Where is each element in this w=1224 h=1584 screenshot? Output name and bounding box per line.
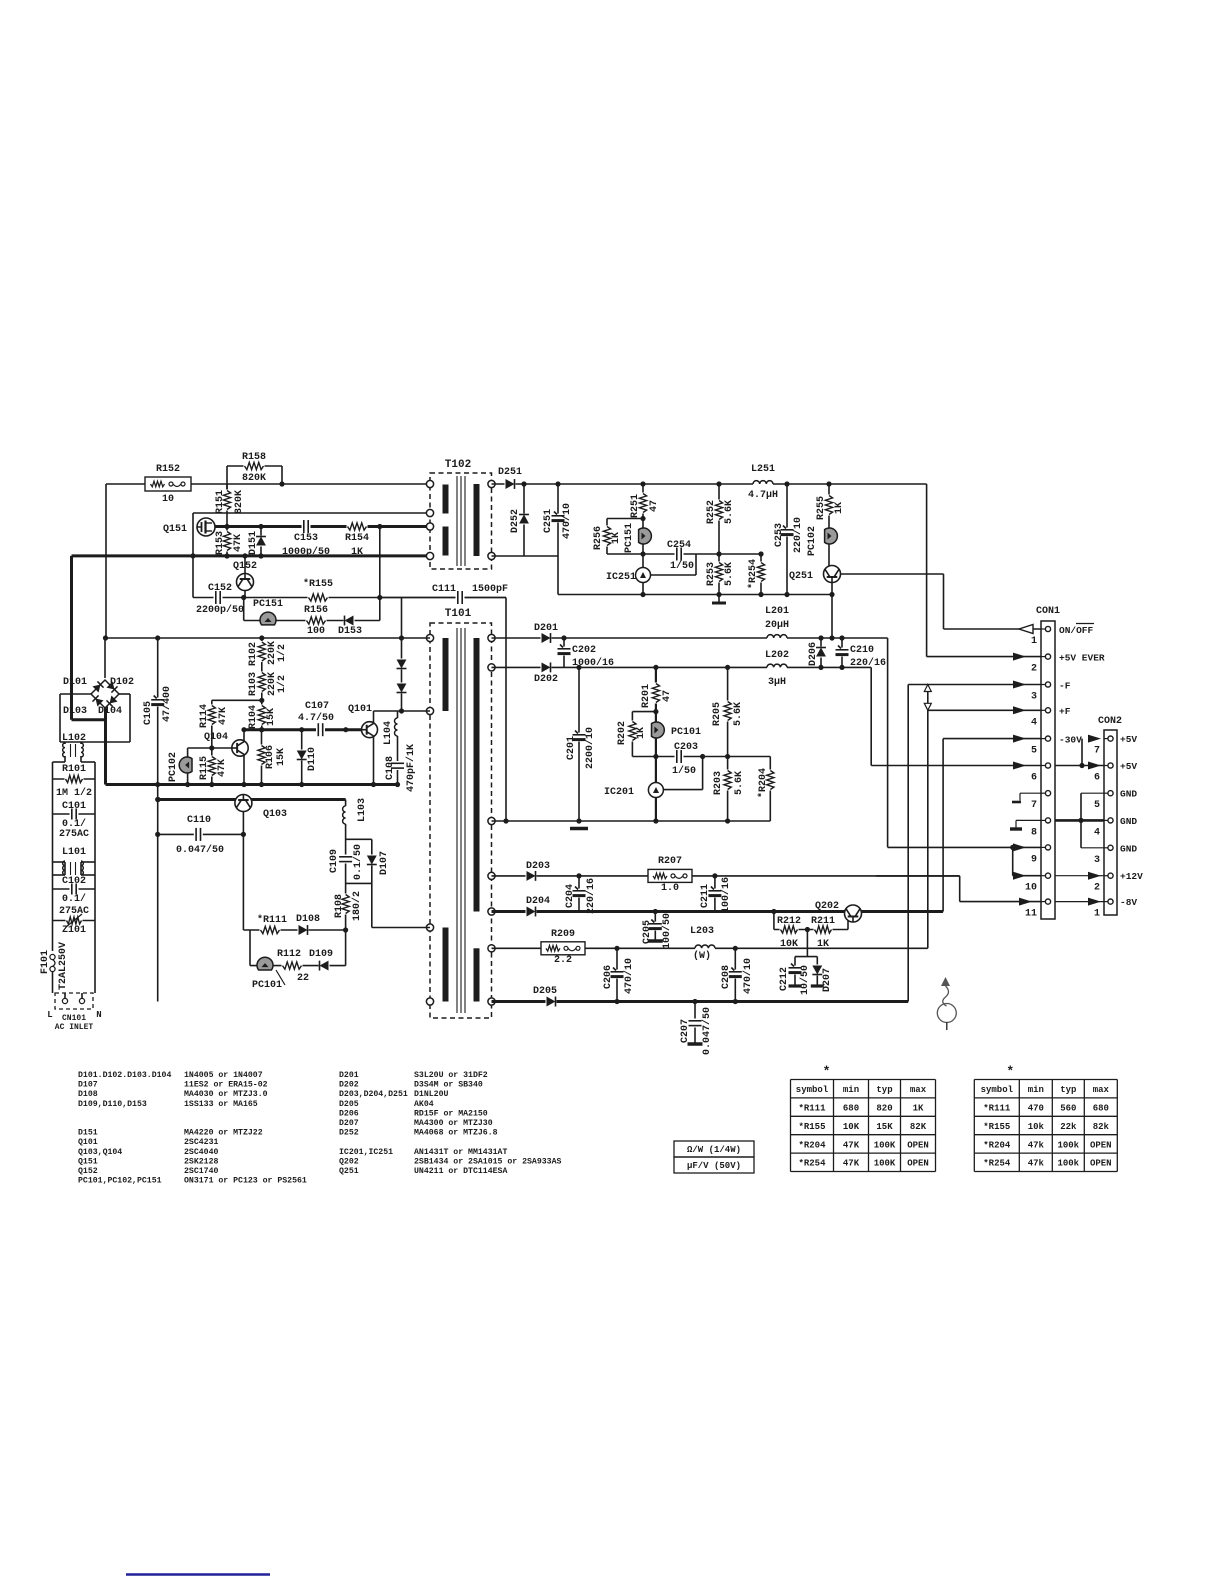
resistor R115: [211, 748, 213, 785]
svg-text:3: 3: [1094, 855, 1100, 866]
svg-text:470/10: 470/10: [561, 503, 573, 539]
svg-text:(W): (W): [693, 950, 711, 962]
svg-text:R115: R115: [199, 756, 210, 780]
svg-text:Q151: Q151: [163, 524, 187, 535]
svg-text:D251: D251: [498, 467, 522, 478]
svg-text:0.047/50: 0.047/50: [701, 1007, 713, 1055]
wire bridge bottom: [105, 708, 107, 720]
svg-text:C105: C105: [143, 701, 154, 725]
svg-text:82k: 82k: [1093, 1122, 1110, 1132]
svg-text:D202: D202: [534, 674, 558, 685]
svg-text:15K: 15K: [876, 1122, 893, 1132]
svg-text:*R254: *R254: [983, 1159, 1011, 1169]
svg-text:C212: C212: [779, 967, 790, 991]
svg-text:R104: R104: [248, 705, 259, 729]
svg-text:1M 1/2: 1M 1/2: [56, 787, 92, 799]
capacitor C105: [157, 638, 159, 1002]
svg-text:47: 47: [649, 500, 660, 512]
svg-text:*R111: *R111: [983, 1104, 1011, 1114]
svg-text:C110: C110: [187, 815, 211, 826]
inductor L201: [767, 637, 787, 640]
svg-text:C211: C211: [700, 884, 711, 908]
wire row y556 right: [492, 555, 559, 557]
connector CON1: [1041, 621, 1055, 919]
svg-text:C208: C208: [721, 965, 732, 989]
wire left drop x106: [105, 484, 107, 638]
wire bridge top: [104, 638, 106, 678]
resistor R104: [256, 705, 267, 726]
legend boxes: [674, 1141, 754, 1157]
svg-text:max: max: [910, 1085, 927, 1095]
optocoupler PC101 row: [249, 930, 251, 966]
capacitor C212 diode D207: [806, 930, 808, 957]
capacitor C211: [714, 876, 716, 912]
svg-text:11: 11: [1025, 909, 1037, 920]
svg-text:R103: R103: [248, 672, 259, 696]
wire left box x158: [155, 797, 160, 802]
pin8 nc stub: [1016, 819, 1041, 821]
wire thick row y911.5: [492, 910, 944, 913]
capacitor C102: [53, 888, 96, 890]
svg-text:1/50: 1/50: [670, 560, 694, 572]
capacitor C111 row: [380, 597, 506, 599]
svg-text:100k: 100k: [1057, 1140, 1079, 1150]
transistor Q103: [235, 795, 252, 812]
wire row y667.4: [492, 666, 872, 668]
svg-text:20µH: 20µH: [765, 620, 789, 631]
svg-text:0.1/: 0.1/: [62, 893, 86, 905]
svg-text:symbol: symbol: [796, 1085, 829, 1095]
bridge side box: [60, 693, 91, 695]
arrow: [1013, 843, 1026, 851]
wire x506 barrier drop: [505, 598, 507, 822]
svg-text:47K: 47K: [843, 1159, 860, 1169]
svg-text:PC151: PC151: [253, 599, 283, 610]
svg-text:0.047/50: 0.047/50: [176, 844, 224, 856]
svg-text:220/16: 220/16: [850, 657, 886, 669]
transistor Q152: [237, 574, 254, 591]
svg-text:S3L20U or 31DF2: S3L20U or 31DF2: [414, 1071, 488, 1080]
shunt regulator IC201: [655, 757, 657, 784]
svg-text:D202: D202: [339, 1081, 359, 1090]
wire thick row y526.5: [215, 525, 430, 528]
svg-text:820K: 820K: [234, 490, 245, 514]
svg-text:R203: R203: [713, 771, 724, 795]
svg-text:D1NL20U: D1NL20U: [414, 1090, 448, 1099]
svg-text:D207: D207: [339, 1119, 359, 1128]
svg-text:R253: R253: [706, 562, 717, 586]
connector CN101 AC inlet: [55, 993, 93, 1009]
svg-text:PC151: PC151: [624, 523, 635, 553]
svg-text:Q152: Q152: [233, 561, 257, 572]
svg-text:C204: C204: [565, 884, 576, 908]
svg-text:L103: L103: [357, 798, 368, 822]
svg-text:100k: 100k: [1057, 1159, 1079, 1169]
svg-text:D108: D108: [296, 914, 320, 925]
arrow: [1013, 872, 1026, 880]
resistor R108: [340, 894, 351, 915]
svg-text:C109: C109: [329, 849, 340, 873]
svg-text:4.7/50: 4.7/50: [298, 712, 334, 724]
svg-text:2: 2: [1031, 664, 1037, 675]
svg-text:R207: R207: [658, 856, 682, 867]
wire +5VEVER drop: [926, 484, 928, 657]
resistor R252: [718, 484, 720, 554]
svg-text:L201: L201: [765, 606, 789, 617]
svg-text:*R254: *R254: [747, 559, 759, 589]
svg-text:GND: GND: [1120, 789, 1137, 800]
svg-text:GND: GND: [1120, 843, 1137, 854]
resistor R201: [655, 667, 657, 711]
svg-text:1N4005 or 1N4007: 1N4005 or 1N4007: [184, 1071, 263, 1080]
resistor R153: [226, 527, 228, 557]
svg-text:Z101: Z101: [62, 925, 86, 936]
svg-text:MA4300 or MTZJ30: MA4300 or MTZJ30: [414, 1119, 493, 1128]
diode D108: [298, 924, 309, 936]
svg-text:47/400: 47/400: [161, 686, 173, 722]
svg-text:R255: R255: [816, 496, 827, 520]
wire base row y748: [188, 747, 232, 749]
resistor R212: [780, 924, 799, 935]
svg-text:+5V: +5V: [1120, 761, 1137, 772]
svg-text:C201: C201: [566, 736, 577, 760]
svg-text:min: min: [843, 1085, 859, 1095]
svg-text:MA4068 or MTZJ6.8: MA4068 or MTZJ6.8: [414, 1129, 498, 1138]
wire thick bus y784.5: [106, 783, 400, 786]
svg-text:D203,D204,D251: D203,D204,D251: [339, 1090, 408, 1099]
svg-text:10: 10: [1025, 883, 1037, 894]
transistor Q251: [824, 566, 841, 583]
svg-text:PC101: PC101: [671, 727, 701, 738]
svg-text:C152: C152: [208, 583, 232, 594]
svg-text:R205: R205: [712, 702, 723, 726]
svg-text:180/2: 180/2: [351, 891, 363, 921]
svg-text:5: 5: [1094, 800, 1100, 811]
transistor Q104: [232, 740, 248, 756]
svg-text:*R204: *R204: [983, 1140, 1011, 1150]
wire row y948.3: [492, 947, 928, 949]
diode D252: [523, 484, 525, 556]
capacitor C205: [654, 912, 656, 941]
svg-text:C206: C206: [603, 965, 614, 989]
resistor R151: [226, 484, 228, 527]
transformer T102: [430, 473, 492, 569]
resistor R158: [227, 465, 282, 467]
svg-text:D252: D252: [339, 1129, 359, 1138]
svg-text:D103: D103: [63, 706, 87, 717]
svg-text:82K: 82K: [910, 1122, 927, 1132]
svg-text:D252: D252: [510, 509, 521, 533]
svg-text:C253: C253: [774, 523, 785, 547]
wire row y700.3: [212, 699, 262, 701]
capacitor C210: [841, 638, 843, 667]
capacitor C206: [616, 948, 618, 1001]
svg-text:C207: C207: [680, 1019, 691, 1043]
svg-text:Q103,Q104: Q103,Q104: [78, 1148, 122, 1157]
svg-text:100: 100: [307, 626, 325, 637]
svg-text:T101: T101: [445, 608, 472, 620]
svg-text:4: 4: [1031, 717, 1037, 728]
svg-text:MA4030 or MTZJ3.0: MA4030 or MTZJ3.0: [184, 1090, 268, 1099]
svg-text:15K: 15K: [276, 748, 287, 766]
resistor R211: [814, 924, 833, 935]
svg-text:R256: R256: [593, 526, 604, 550]
svg-text:2200p/50: 2200p/50: [196, 604, 244, 616]
wire Q251 to CON1 pin1: [841, 573, 944, 575]
svg-text:470/10: 470/10: [623, 958, 635, 994]
resistor R202: [632, 711, 656, 713]
wire x379.8 drop: [379, 527, 381, 621]
diode D202: [541, 661, 552, 673]
transistor Q202: [845, 905, 862, 922]
ground under C201: [570, 827, 588, 831]
svg-text:PC101,PC102,PC151: PC101,PC102,PC151: [78, 1177, 162, 1186]
transformer T101: [430, 623, 492, 1018]
capacitor C109 / diode D107 box: [346, 838, 372, 840]
svg-text:+12V: +12V: [1120, 871, 1143, 882]
svg-text:C202: C202: [572, 645, 596, 656]
svg-text:220/10: 220/10: [792, 517, 804, 553]
svg-text:R252: R252: [706, 500, 717, 524]
svg-text:R211: R211: [811, 916, 835, 927]
wire ground row y821: [492, 820, 771, 822]
svg-text:Q152: Q152: [78, 1167, 98, 1176]
wire row y711 to T101: [402, 710, 431, 712]
wire +5V route x871.2: [870, 667, 872, 765]
svg-text:*: *: [1006, 1064, 1014, 1079]
resistor R207: [648, 869, 692, 882]
svg-text:2SC4231: 2SC4231: [184, 1138, 218, 1147]
inductor L103: [345, 800, 347, 931]
svg-text:Q202: Q202: [815, 901, 839, 912]
arrow: [1013, 653, 1026, 661]
diode D110: [301, 730, 303, 785]
svg-text:2SB1434 or 2SA1015 or 2SA933AS: 2SB1434 or 2SA1015 or 2SA933AS: [414, 1157, 561, 1166]
optocoupler PC101 transistor side: [655, 712, 657, 757]
resistor R154: [347, 521, 368, 532]
svg-text:1: 1: [1094, 909, 1100, 920]
wire -8V route: [876, 875, 960, 877]
svg-text:47K: 47K: [217, 759, 228, 777]
svg-text:OPEN: OPEN: [1090, 1140, 1112, 1150]
svg-text:R202: R202: [617, 721, 628, 745]
svg-text:D109: D109: [309, 949, 333, 960]
svg-text:3: 3: [1031, 692, 1037, 703]
svg-text:680: 680: [843, 1104, 859, 1114]
inductor L203: [695, 947, 715, 950]
svg-text:470: 470: [1028, 1104, 1044, 1114]
svg-text:-8V: -8V: [1120, 897, 1137, 908]
svg-text:100/16: 100/16: [720, 877, 732, 913]
svg-text:R209: R209: [551, 929, 575, 940]
svg-text:C203: C203: [674, 742, 698, 753]
svg-text:D107: D107: [379, 851, 390, 875]
pin7 nc stub: [1020, 792, 1041, 794]
svg-text:D201: D201: [339, 1071, 359, 1080]
transistor Q151 mosfet: [197, 518, 215, 536]
wire -F route x908.2: [907, 685, 909, 1002]
svg-text:*R111: *R111: [257, 914, 287, 926]
svg-text:C101: C101: [62, 801, 86, 812]
wire +12V route x887.6: [887, 638, 889, 847]
svg-text:100K: 100K: [874, 1159, 896, 1169]
resistor R205: [727, 667, 729, 756]
svg-text:AC INLET: AC INLET: [55, 1023, 94, 1032]
arrow pin11: [1019, 898, 1032, 906]
wire gate drop x193: [192, 513, 194, 598]
svg-text:CON1: CON1: [1036, 606, 1060, 617]
svg-text:2SC4040: 2SC4040: [184, 1148, 218, 1157]
svg-text:CN101: CN101: [62, 1014, 86, 1023]
svg-text:PC101: PC101: [252, 980, 282, 991]
svg-text:1K: 1K: [913, 1104, 924, 1114]
svg-text:R108: R108: [334, 894, 345, 918]
svg-text:2: 2: [1094, 883, 1100, 894]
svg-text:Q151: Q151: [78, 1157, 98, 1166]
resistor R156: [306, 615, 327, 626]
svg-text:5.6K: 5.6K: [733, 702, 744, 726]
svg-text:*: *: [823, 1064, 831, 1079]
svg-text:L: L: [47, 1010, 52, 1020]
svg-text:D110: D110: [307, 747, 318, 771]
svg-text:*R111: *R111: [798, 1104, 826, 1114]
svg-text:D153: D153: [338, 626, 362, 637]
wire row y927.5: [372, 927, 430, 929]
svg-text:UN4211 or DTC114ESA: UN4211 or DTC114ESA: [414, 1167, 507, 1176]
svg-text:*R204: *R204: [757, 768, 769, 798]
resistor R102: [261, 638, 263, 730]
svg-text:L202: L202: [765, 650, 789, 661]
svg-text:Q251: Q251: [789, 571, 813, 582]
arrow: [1013, 681, 1026, 689]
svg-text:1/2: 1/2: [276, 644, 288, 662]
svg-text:L101: L101: [62, 847, 86, 858]
resistor R111 row: [243, 929, 345, 931]
svg-text:1.0: 1.0: [661, 883, 679, 894]
svg-text:47k: 47k: [1028, 1140, 1045, 1150]
wire thick row y799.5: [158, 798, 346, 801]
resistor R155: [244, 597, 506, 599]
svg-text:Q202: Q202: [339, 1157, 359, 1166]
wire row y638: [106, 637, 431, 639]
svg-text:ON/OFF: ON/OFF: [1059, 625, 1094, 636]
capacitor C201: [578, 667, 580, 821]
svg-text:MA4220 or MTZJ22: MA4220 or MTZJ22: [184, 1129, 263, 1138]
capacitor C108: [390, 761, 405, 770]
svg-text:1K: 1K: [611, 532, 622, 544]
svg-text:*R155: *R155: [798, 1122, 825, 1132]
svg-text:R114: R114: [199, 704, 210, 728]
wire GND bracket: [1055, 819, 1104, 822]
svg-text:100/50: 100/50: [661, 913, 673, 949]
shunt regulator IC251: [636, 568, 651, 583]
svg-text:D204: D204: [526, 896, 550, 907]
svg-text:47k: 47k: [1028, 1159, 1045, 1169]
svg-text:1/2: 1/2: [276, 675, 288, 693]
svg-text:820: 820: [876, 1104, 892, 1114]
value table 1: [791, 1079, 936, 1081]
capacitor C152: [193, 597, 244, 599]
svg-text:R156: R156: [304, 605, 328, 616]
svg-text:F101: F101: [40, 950, 51, 974]
capacitor C203: [656, 756, 770, 758]
resistor R254: [760, 554, 762, 595]
svg-text:D206: D206: [339, 1109, 359, 1118]
svg-text:22: 22: [297, 973, 309, 984]
svg-text:1SS133 or MA165: 1SS133 or MA165: [184, 1100, 258, 1109]
wire row y638 secondary: [492, 637, 888, 639]
transistor Q101: [362, 722, 378, 738]
svg-text:5: 5: [1031, 746, 1037, 757]
svg-text:D104: D104: [98, 706, 122, 717]
svg-text:T2AL250V: T2AL250V: [58, 942, 69, 990]
svg-text:220/16: 220/16: [585, 878, 597, 914]
wire thick row y729.7: [244, 728, 362, 731]
inductor L104: [397, 711, 399, 785]
svg-text:47K: 47K: [218, 707, 229, 725]
footer blue line: [126, 1573, 270, 1575]
svg-text:R102: R102: [248, 642, 259, 666]
svg-text:R151: R151: [215, 490, 226, 514]
svg-text:D108: D108: [78, 1090, 98, 1099]
svg-text:T102: T102: [445, 459, 471, 471]
svg-text:D101: D101: [63, 677, 87, 688]
svg-text:C205: C205: [642, 920, 653, 944]
svg-text:D201: D201: [534, 623, 558, 634]
svg-text:Q251: Q251: [339, 1167, 359, 1176]
svg-text:PC102: PC102: [807, 526, 818, 556]
svg-text:47K: 47K: [843, 1140, 860, 1150]
capacitor C208: [734, 948, 736, 1001]
rail left x52.5: [52, 762, 54, 951]
svg-text:D207: D207: [822, 968, 833, 992]
svg-text:R212: R212: [777, 916, 801, 927]
capacitor C254: [643, 553, 761, 555]
rail right x95: [94, 762, 96, 993]
capacitor C207: [694, 1002, 696, 1044]
connector CON2: [1104, 730, 1117, 915]
wire +F route x927.8: [927, 710, 929, 948]
wire drop x832 to row638: [831, 595, 833, 639]
optocoupler PC151 transistor side: [642, 519, 644, 595]
svg-text:D205: D205: [533, 986, 557, 997]
resistor R103: [256, 672, 267, 693]
svg-text:10k: 10k: [1028, 1122, 1045, 1132]
wire thick row y555.9: [72, 554, 431, 557]
capacitor C153: [302, 519, 311, 534]
arrow pin1 hollow: [1019, 625, 1033, 634]
diode D206: [820, 638, 822, 667]
svg-text:L104: L104: [383, 721, 394, 745]
wire +12V arrow CON2: [1055, 875, 1104, 877]
wire thick left return: [70, 556, 73, 720]
svg-text:-F: -F: [1059, 680, 1071, 691]
capacitor C204: [578, 876, 580, 912]
wire rail y484 right: [492, 483, 927, 485]
svg-text:1K: 1K: [834, 502, 845, 514]
svg-text:IC251: IC251: [606, 572, 636, 583]
optocoupler PC102 transistor side: [187, 748, 189, 757]
capacitor C253: [786, 484, 788, 595]
resistor R101: [53, 778, 96, 780]
svg-text:5.6K: 5.6K: [734, 771, 745, 795]
capacitor C101: [53, 813, 96, 815]
svg-text:N: N: [96, 1010, 101, 1020]
svg-text:Q101: Q101: [78, 1138, 98, 1147]
svg-text:R251: R251: [630, 494, 641, 518]
svg-text:1/50: 1/50: [672, 765, 696, 777]
fuse F101: [50, 954, 55, 959]
